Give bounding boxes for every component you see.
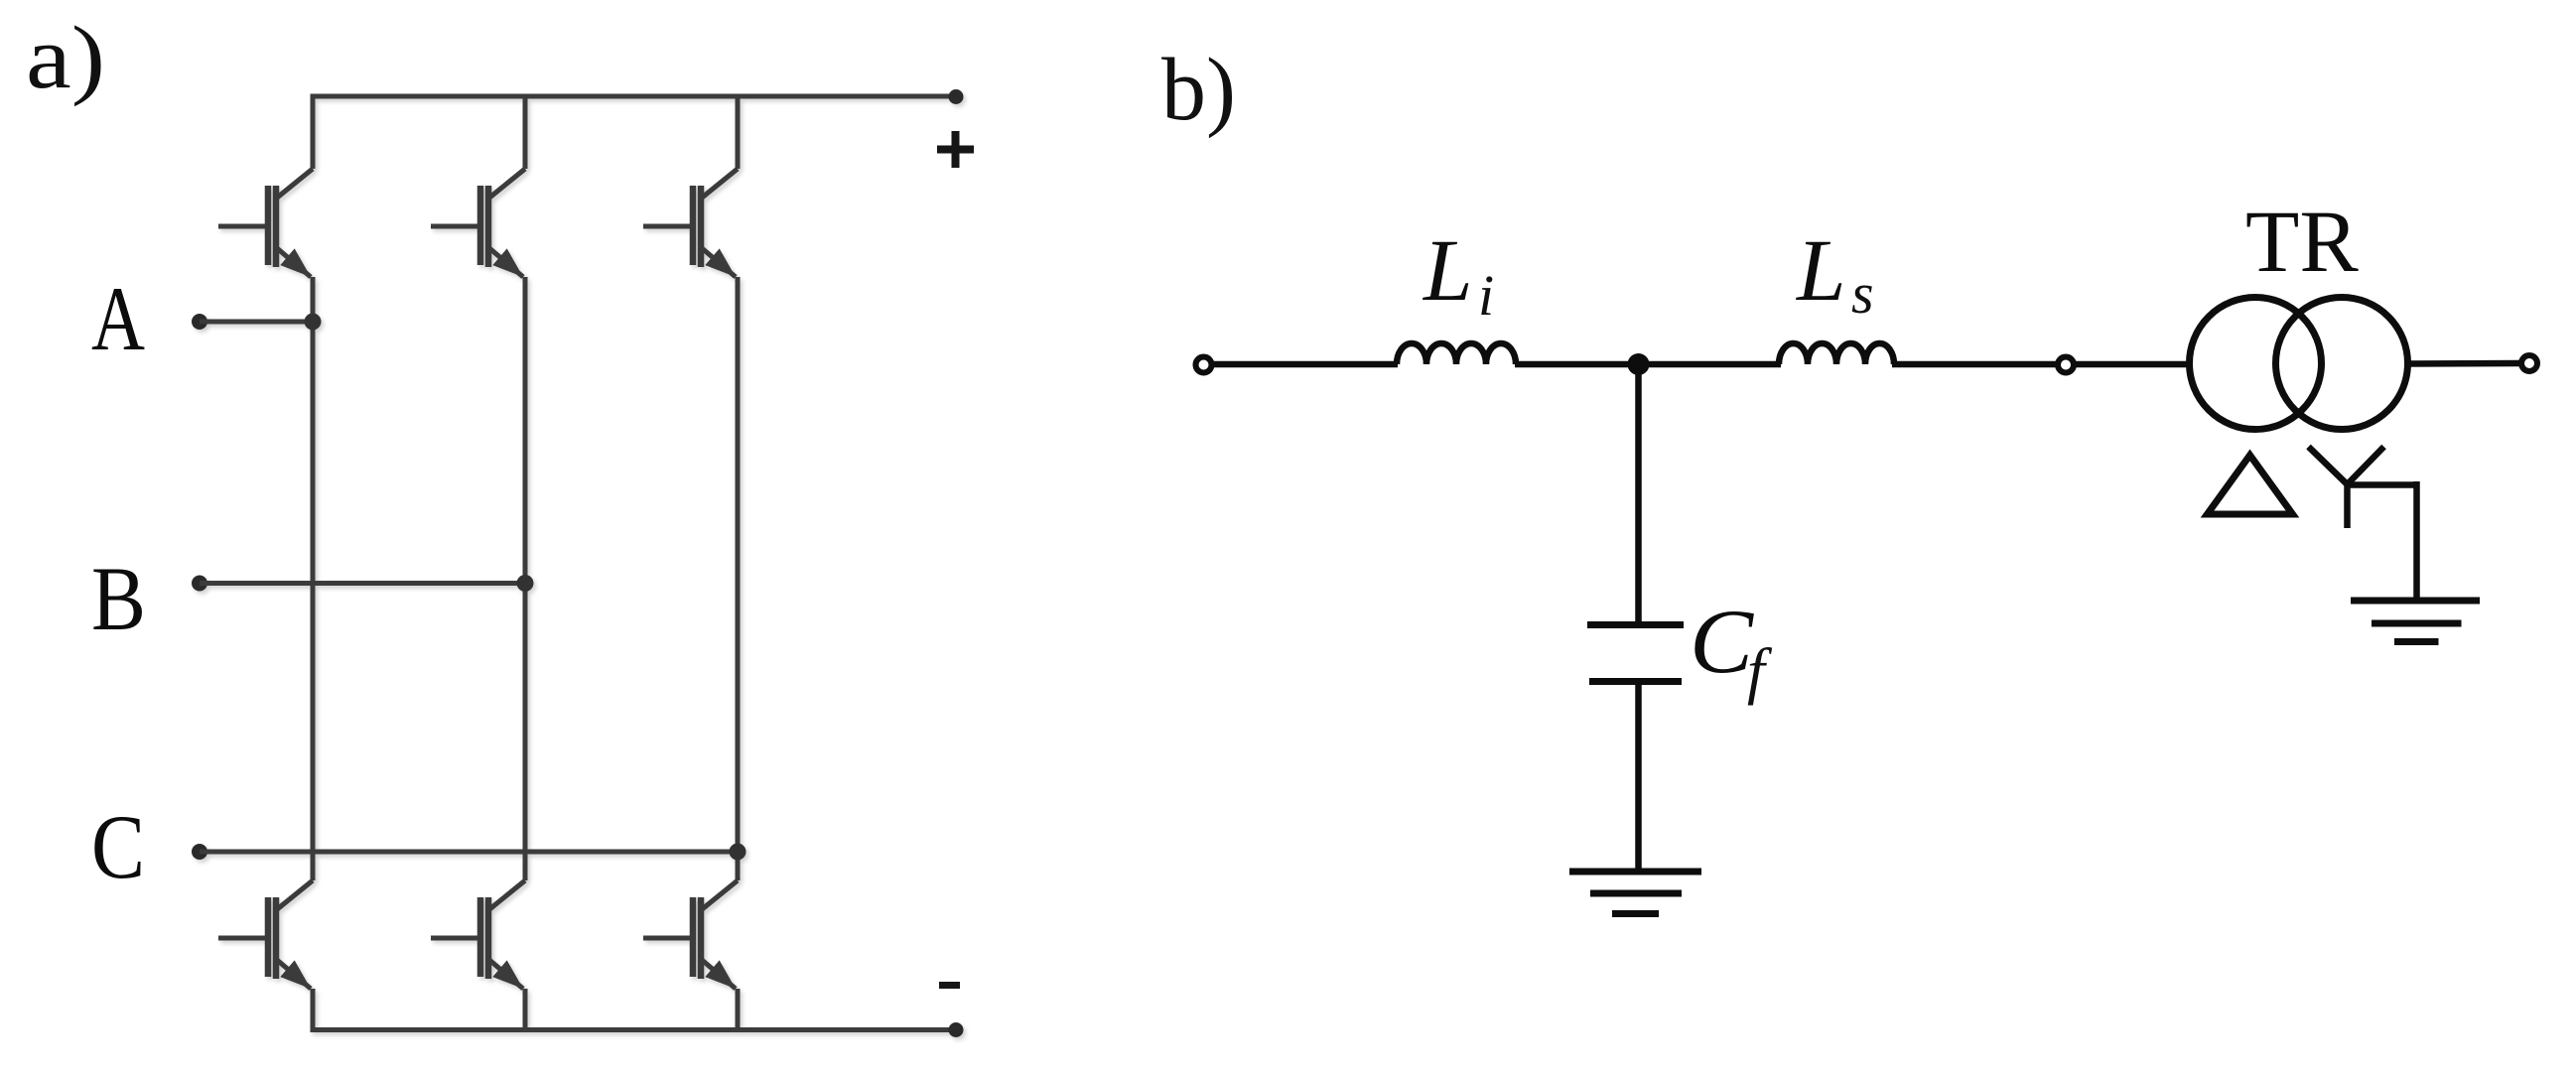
svg-text:L: L bbox=[1795, 222, 1846, 320]
svg-text:i: i bbox=[1478, 263, 1494, 328]
svg-text:C: C bbox=[1690, 591, 1755, 692]
svg-text:L: L bbox=[1422, 222, 1473, 320]
svg-text:a): a) bbox=[26, 9, 105, 107]
svg-text:b): b) bbox=[1161, 41, 1236, 139]
svg-text:C: C bbox=[91, 796, 145, 897]
svg-text:B: B bbox=[91, 548, 146, 649]
svg-text:TR: TR bbox=[2245, 194, 2359, 291]
svg-text:s: s bbox=[1851, 261, 1874, 326]
svg-text:A: A bbox=[91, 268, 145, 369]
